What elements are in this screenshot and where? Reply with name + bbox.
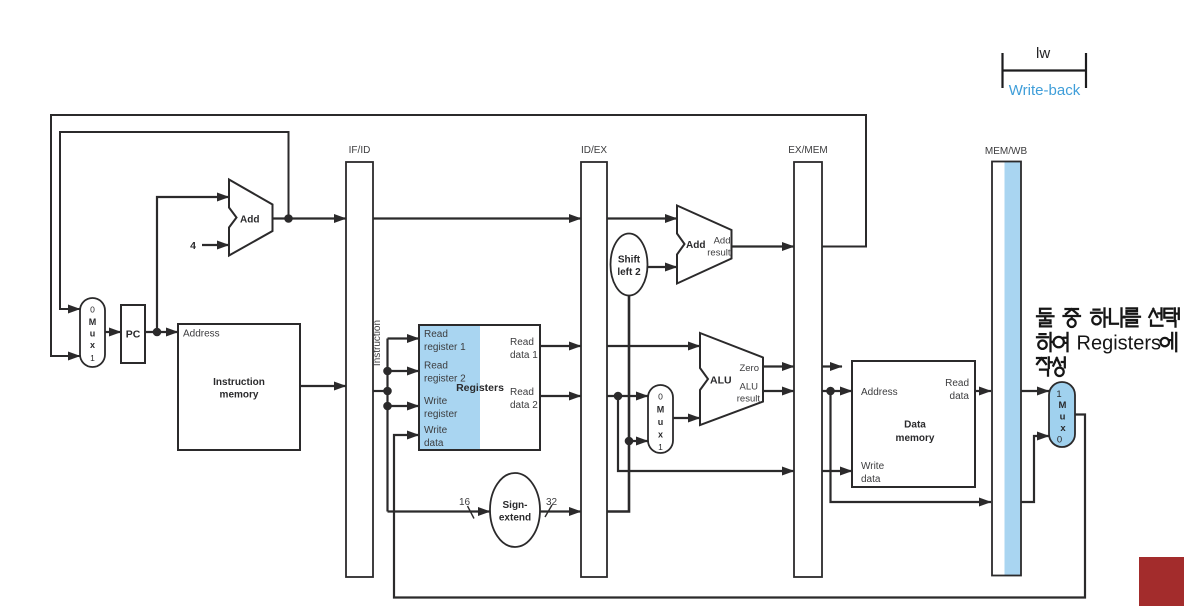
pipeline register MEM/WB (WB half highlighted) <box>985 146 1028 576</box>
wire instruction distribution vertical <box>386 339 388 512</box>
svg-text:Address: Address <box>861 387 898 398</box>
svg-text:1: 1 <box>658 442 663 452</box>
annotation Korean: select one of the two and write to Registers <box>1037 308 1179 376</box>
wire memory Read data to MEM/WB <box>975 390 991 392</box>
svg-text:u: u <box>90 329 96 339</box>
wire branch-target feedback loop to mux input 1 <box>51 115 866 356</box>
decoration dark red corner block <box>1139 557 1184 606</box>
svg-text:x: x <box>658 430 663 440</box>
junction read data 2 split <box>614 392 623 401</box>
pipeline register IF/ID <box>346 145 373 577</box>
svg-text:MEM/WB: MEM/WB <box>985 146 1028 157</box>
svg-text:0: 0 <box>1057 435 1062 446</box>
svg-text:ALU: ALU <box>740 382 759 393</box>
svg-text:EX/MEM: EX/MEM <box>788 145 827 156</box>
wire PC+4 from ID/EX to Add input <box>607 217 677 219</box>
svg-text:Read: Read <box>510 387 534 398</box>
svg-text:Read: Read <box>510 337 534 348</box>
wire mux output to PC <box>105 331 121 333</box>
svg-text:data: data <box>424 438 444 449</box>
svg-text:0: 0 <box>90 305 95 315</box>
wire Zero flag to EX/MEM <box>763 365 794 367</box>
svg-text:result: result <box>737 394 761 405</box>
svg-text:data 2: data 2 <box>510 400 538 411</box>
svg-text:Instruction: Instruction <box>372 320 383 366</box>
svg-text:Add: Add <box>714 236 731 247</box>
annotation lw stage bracket <box>1003 45 1087 88</box>
svg-text:PC: PC <box>126 329 141 341</box>
svg-text:0: 0 <box>658 392 663 402</box>
wire immediate to ALU mux input 1 <box>629 440 648 442</box>
svg-text:1: 1 <box>90 353 95 363</box>
svg-text:Read: Read <box>424 329 448 340</box>
svg-text:Read: Read <box>945 378 969 389</box>
svg-text:x: x <box>1060 423 1066 434</box>
svg-text:memory: memory <box>896 433 935 444</box>
mux MemtoReg (1/M/u/x/0, highlighted) <box>1049 382 1075 447</box>
wire Zero flag stub out of EX/MEM <box>822 365 842 367</box>
wire Read data 2 to ID/EX <box>540 395 581 397</box>
svg-text:16: 16 <box>459 497 471 508</box>
svg-text:Add: Add <box>240 215 259 226</box>
wire ALU mux output to ALU input 2 <box>673 417 700 419</box>
wire to Read register 1 <box>388 337 420 339</box>
wire ALU result to EX/MEM <box>763 390 794 392</box>
svg-text:data 1: data 1 <box>510 350 538 361</box>
block Data memory <box>852 361 975 487</box>
wire branch target to EX/MEM <box>732 245 795 247</box>
wire Read data 2 to ALU mux input 0 <box>607 395 648 397</box>
svg-text:M: M <box>89 317 97 327</box>
svg-text:x: x <box>90 340 95 350</box>
wire ALU result bypass to MEM/WB <box>831 391 992 502</box>
svg-text:data: data <box>861 474 881 485</box>
adder Add (PC+4) <box>229 180 273 256</box>
mux ALUSrc (0/M/u/x/1) <box>648 385 673 453</box>
wire store data to data memory Write data <box>822 470 852 472</box>
wire read data 2 down to EX/MEM (store data) <box>618 396 794 471</box>
svg-text:left 2: left 2 <box>617 267 641 278</box>
wire instruction memory output to IF/ID <box>300 385 346 387</box>
svg-text:extend: extend <box>499 513 531 524</box>
svg-text:Registers: Registers <box>456 382 504 394</box>
svg-text:Registers: Registers <box>1077 333 1161 355</box>
svg-text:Write: Write <box>424 396 448 407</box>
svg-text:register 1: register 1 <box>424 342 466 353</box>
svg-text:Instruction: Instruction <box>213 377 265 388</box>
svg-text:32: 32 <box>546 497 558 508</box>
junction instruction main <box>383 387 392 396</box>
svg-text:Write: Write <box>861 461 885 472</box>
wire Read data 1 to ID/EX <box>540 345 581 347</box>
wire ALU result from MEM/WB to WB mux input 0 <box>1021 436 1049 502</box>
svg-text:Write: Write <box>424 425 448 436</box>
wire Read data 1 to ALU input 1 <box>607 345 700 347</box>
wire sign-extended immediate to ID/EX <box>540 510 581 512</box>
bus width slash 16 <box>468 506 475 519</box>
bus width slash 32 <box>545 505 552 517</box>
svg-text:Zero: Zero <box>739 363 759 374</box>
junction immediate to ALU mux <box>625 437 634 446</box>
wire immediate from ID/EX up to Shift left 2 <box>607 296 629 512</box>
wire shifted immediate to branch Add <box>648 266 678 268</box>
wire constant 4 to Add input 2 <box>202 244 229 246</box>
svg-text:ALU: ALU <box>710 375 732 387</box>
svg-text:Read: Read <box>424 361 448 372</box>
wire PC output to instruction memory Address <box>145 331 178 333</box>
svg-text:Sign-: Sign- <box>503 500 528 511</box>
pipeline register EX/MEM <box>788 145 827 577</box>
svg-text:ID/EX: ID/EX <box>581 145 607 156</box>
svg-text:result: result <box>707 248 731 259</box>
wire PC value up to Add input 1 <box>157 197 229 332</box>
wire Read data from MEM/WB to WB mux input 1 <box>1021 390 1049 392</box>
svg-text:Data: Data <box>904 420 926 431</box>
junction instruction to read register 2 <box>383 367 392 376</box>
junction PC output <box>153 328 162 337</box>
block Instruction memory <box>178 324 300 450</box>
block Registers (write port highlighted) <box>419 325 540 450</box>
svg-text:Add: Add <box>686 240 705 251</box>
unit ALU <box>700 333 763 425</box>
wire write-back result to Registers Write data <box>394 415 1085 598</box>
svg-text:data: data <box>950 391 970 402</box>
svg-text:lw: lw <box>1036 45 1050 62</box>
svg-text:memory: memory <box>220 390 259 401</box>
wire PC+4 feedback loop to mux input 0 <box>60 132 289 309</box>
wire instruction out of IF/ID <box>373 390 388 392</box>
svg-text:M: M <box>1059 400 1067 411</box>
wire to Read register 2 <box>388 370 420 372</box>
junction PC+4 split <box>284 214 293 223</box>
wire PC+4 from IF/ID to ID/EX <box>373 217 581 219</box>
svg-text:1: 1 <box>1056 389 1061 400</box>
svg-text:IF/ID: IF/ID <box>349 145 371 156</box>
unit Sign-extend <box>490 473 540 547</box>
svg-text:register: register <box>424 409 458 420</box>
svg-text:u: u <box>1060 412 1066 423</box>
wire ALU result to data memory Address <box>822 390 852 392</box>
svg-text:u: u <box>658 417 664 427</box>
junction instruction to write register <box>383 402 392 411</box>
svg-text:Write-back: Write-back <box>1009 82 1081 99</box>
svg-text:M: M <box>657 405 665 415</box>
wire Add output (PC+4) to IF/ID <box>273 217 347 219</box>
svg-text:Address: Address <box>183 329 220 340</box>
svg-text:4: 4 <box>190 240 196 252</box>
svg-text:Shift: Shift <box>618 255 641 266</box>
mux PCSrc (0/M/u/x/1) <box>80 298 105 367</box>
pipeline register ID/EX <box>581 145 607 577</box>
wire immediate 16-bit to Sign-extend <box>388 510 491 512</box>
junction ALU result split <box>826 387 835 396</box>
adder Add (branch target) <box>677 206 732 284</box>
register PC <box>121 305 145 363</box>
wire to Write register <box>388 405 420 407</box>
unit Shift left 2 <box>611 234 648 296</box>
